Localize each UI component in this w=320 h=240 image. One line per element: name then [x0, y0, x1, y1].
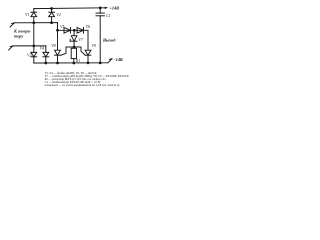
svg-text:V3: V3 [27, 52, 31, 57]
svg-text:V5: V5 [60, 24, 64, 29]
svg-text:−14В: −14В [113, 57, 123, 62]
terminal generator-1 arrow [10, 23, 14, 27]
terminal generator-2 arrow [9, 46, 13, 50]
svg-text:Выход: Выход [102, 38, 116, 43]
thyristor V8 [55, 50, 61, 63]
terminal -14V arrow [108, 59, 112, 63]
svg-text:V1: V1 [25, 12, 29, 17]
svg-text:V9: V9 [91, 43, 95, 48]
svg-text:R1: R1 [75, 58, 80, 63]
svg-text:V4: V4 [40, 46, 44, 51]
diode V6 [77, 28, 83, 34]
diode V3 [31, 52, 37, 63]
svg-text:V6: V6 [86, 24, 90, 29]
resistor R1 [71, 48, 76, 63]
diode V1 [31, 9, 37, 53]
zener V7 [70, 30, 77, 47]
wire row right corner down [87, 30, 89, 50]
wire top bus [34, 7, 105, 10]
wire AC1 corner down [57, 23, 59, 50]
node V1-AC1 [33, 22, 35, 24]
wire gate right drop [81, 47, 85, 55]
node row-left [57, 29, 59, 31]
svg-text:остальное — по схеме выпрямите: остальное — по схеме выпрямителя на 14 В… [45, 83, 121, 87]
diode V2 [49, 9, 55, 23]
node V3-AC2 [33, 45, 35, 47]
svg-text:+14В: +14В [110, 5, 120, 10]
diode V4 [43, 46, 49, 63]
wire gate left drop [61, 47, 66, 55]
node C1-top [99, 7, 101, 9]
svg-text:тору: тору [14, 34, 23, 39]
capacitor C1 [96, 8, 104, 63]
wire gate bar [66, 46, 81, 48]
diode V5 [64, 28, 70, 34]
thyristor V9 [85, 50, 91, 63]
node R1-bus [45, 62, 47, 64]
svg-text:V8: V8 [51, 43, 55, 48]
svg-text:V7: V7 [78, 37, 83, 42]
svg-text:C1: C1 [106, 13, 111, 18]
wire sense row [58, 29, 89, 31]
terminal +14V arrow [105, 7, 109, 9]
wire AC1 line [14, 22, 57, 24]
node V2-top [51, 8, 53, 10]
node row-center [73, 29, 75, 31]
wire bottom bus [34, 62, 108, 64]
wire AC2 line [13, 45, 46, 47]
node V2-AC1 [51, 22, 53, 24]
node gate-center [73, 46, 75, 48]
svg-text:V2: V2 [56, 12, 60, 17]
